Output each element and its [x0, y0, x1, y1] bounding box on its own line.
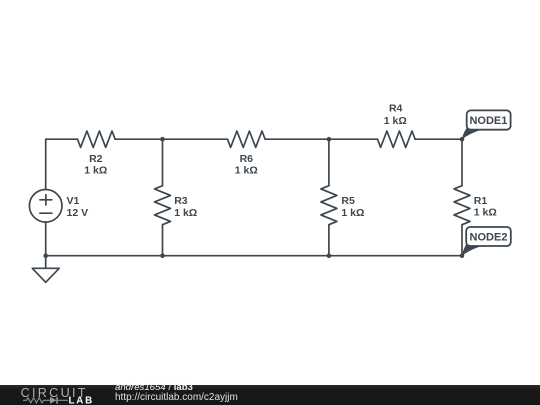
footer bar [0, 385, 540, 405]
flag NODE1 [462, 110, 511, 139]
junction dot bottom R3 [160, 253, 165, 258]
svg-text:R5: R5 [341, 195, 355, 207]
svg-text:V1: V1 [67, 195, 80, 207]
svg-text:1 kΩ: 1 kΩ [84, 165, 107, 177]
V1 minus sign [40, 212, 52, 214]
footer text [115, 383, 238, 402]
wire R1 bottom to node2 [461, 225, 463, 256]
junction dot bottom R5 [327, 253, 332, 258]
svg-text:NODE2: NODE2 [470, 232, 508, 244]
resistor R4 [378, 131, 416, 147]
junction dot node1 [460, 137, 465, 142]
wire R5 bottom [328, 225, 330, 256]
flag NODE2 [462, 227, 511, 256]
wire node1 corner down to R1 [461, 139, 463, 186]
junction dot bottom V1 [43, 253, 48, 258]
labels [67, 103, 497, 219]
wire R2 to R6 [115, 138, 227, 140]
svg-text:1 kΩ: 1 kΩ [474, 207, 497, 219]
resistor R6 [228, 131, 266, 147]
resistor R1 [454, 186, 470, 225]
svg-text:R6: R6 [240, 153, 254, 165]
wire R6 to R4 [265, 138, 377, 140]
resistor R2 [78, 131, 116, 147]
svg-text:1 kΩ: 1 kΩ [235, 165, 258, 177]
wire R5 top [328, 139, 330, 186]
bottom wire [46, 255, 462, 257]
svg-text:R1: R1 [474, 195, 488, 207]
V1 plus sign [40, 199, 52, 201]
svg-text:LAB: LAB [69, 396, 95, 405]
resistor R3 [155, 186, 171, 225]
svg-text:R2: R2 [89, 153, 103, 165]
svg-text:1 kΩ: 1 kΩ [341, 207, 364, 219]
ground symbol [32, 268, 59, 282]
junction dot node2 [460, 253, 465, 258]
svg-text:R4: R4 [389, 103, 403, 115]
resistor R5 [321, 186, 337, 225]
circuitlab logo [0, 385, 110, 405]
ground wire stub [45, 256, 47, 269]
svg-text:R3: R3 [174, 195, 188, 207]
svg-text:NODE1: NODE1 [469, 115, 507, 127]
wire R3 top [162, 139, 164, 186]
wire R3 bottom [162, 225, 164, 256]
wire V1 bottom [45, 222, 47, 256]
svg-text:1 kΩ: 1 kΩ [384, 115, 407, 127]
svg-text:1 kΩ: 1 kΩ [174, 207, 197, 219]
wire top left: V1 top to R2 [46, 139, 78, 190]
svg-text:12 V: 12 V [67, 207, 89, 219]
voltage source V1 [29, 190, 62, 223]
wire R4 to node1 corner [415, 138, 462, 140]
junction dot top R3 [160, 137, 165, 142]
junction dot top R5 [327, 137, 332, 142]
